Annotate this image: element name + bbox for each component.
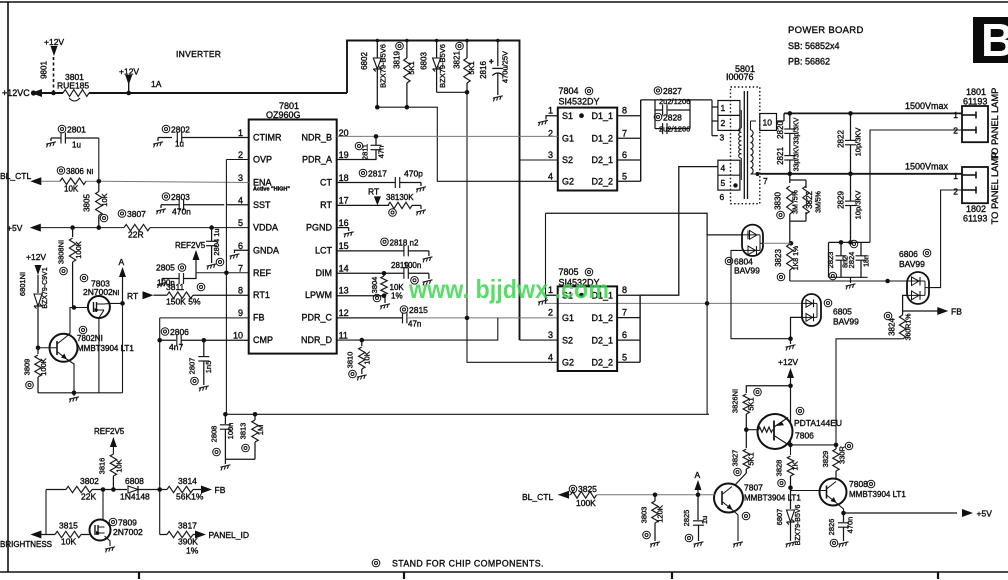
svg-text:1: 1	[238, 128, 243, 138]
svg-text:47n: 47n	[408, 320, 421, 329]
svg-text:CTIMR: CTIMR	[253, 133, 282, 143]
svg-text:5: 5	[238, 218, 243, 228]
svg-text:+12V: +12V	[44, 37, 64, 47]
svg-text:1u: 1u	[72, 141, 81, 150]
svg-text:10p/3KV: 10p/3KV	[854, 128, 863, 157]
svg-text:2817: 2817	[368, 169, 387, 179]
svg-text:SI4532DY: SI4532DY	[559, 97, 600, 107]
svg-text:2803: 2803	[171, 192, 190, 202]
resistor R3828 1K	[787, 456, 793, 476]
svg-text:2805: 2805	[156, 263, 175, 273]
svg-text:3828: 3828	[775, 460, 784, 477]
transistor Q7803 2N7002 MOSFET	[88, 296, 110, 318]
diode D6808 1N4148	[113, 489, 127, 491]
border frame bottom line with ticks	[0, 571, 1008, 573]
node A arrow (7803)	[122, 276, 124, 303]
resistor R3806 10K	[41, 180, 60, 182]
svg-text:2828: 2828	[663, 113, 682, 123]
svg-text:BL_CTL: BL_CTL	[0, 171, 31, 181]
svg-text:100K: 100K	[39, 358, 48, 376]
svg-text:18: 18	[339, 173, 349, 183]
svg-text:1u: 1u	[700, 516, 709, 524]
node RT arrow at pin 17	[337, 204, 389, 206]
wire 7809 drain up to divider node	[102, 490, 104, 520]
diode D6804 BAV99	[742, 225, 763, 256]
svg-text:5K1: 5K1	[747, 452, 756, 465]
svg-text:B: B	[981, 14, 1008, 66]
svg-text:VDDA: VDDA	[253, 223, 278, 233]
svg-text:INVERTER: INVERTER	[176, 49, 221, 59]
svg-text:PANEL_ID: PANEL_ID	[209, 530, 249, 540]
svg-text:REF: REF	[253, 268, 272, 278]
svg-text:1K: 1K	[791, 461, 800, 470]
svg-text:2808: 2808	[210, 426, 219, 443]
svg-text:3819: 3819	[393, 51, 402, 69]
svg-text:MMBT3904 LT1: MMBT3904 LT1	[744, 494, 801, 503]
svg-text:47n: 47n	[377, 146, 386, 159]
svg-text:2801: 2801	[67, 125, 86, 135]
transistor Q7808 MMBT3904 LT1	[820, 479, 847, 506]
wire FB vertical to bottom divider	[159, 318, 161, 535]
svg-text:2821: 2821	[776, 147, 785, 165]
resistor R3815 10K	[41, 534, 55, 536]
svg-text:1: 1	[953, 110, 958, 120]
svg-text:3810: 3810	[346, 352, 355, 369]
capacitor C2817 470p on CT	[337, 182, 396, 184]
svg-text:100n: 100n	[404, 261, 422, 270]
svg-text:BL_CTL: BL_CTL	[522, 492, 553, 502]
wire NDR_D loop to G1 line	[337, 318, 498, 341]
svg-text:2822: 2822	[837, 130, 846, 148]
svg-text:G1: G1	[562, 313, 574, 323]
border frame left line	[7, 2, 9, 572]
transistor Q7802 MMBT3904 LT1	[50, 334, 78, 362]
svg-text:DIM: DIM	[316, 268, 333, 278]
wire OVP vertical to feedback filter	[225, 160, 227, 415]
svg-text:6802: 6802	[360, 52, 369, 70]
capacitor C2826 470n	[843, 513, 845, 522]
svg-text:470p: 470p	[404, 169, 423, 179]
svg-text:3803: 3803	[640, 507, 649, 524]
wire 6804 upper pin loop	[546, 213, 743, 235]
resistor R3808 100K	[70, 225, 75, 230]
capacitor C2818 8n2 on LCT	[337, 250, 404, 252]
svg-text:6: 6	[238, 241, 243, 251]
svg-text:2: 2	[548, 308, 553, 318]
capacitor C2824 18n	[860, 242, 862, 255]
capacitor C2801 1u	[51, 137, 61, 139]
transistor Q7809 2N7002 MOSFET	[90, 520, 111, 541]
capacitor C2819 100n on DIM	[337, 272, 404, 274]
svg-text:+12V: +12V	[26, 252, 46, 262]
connector J1802 61193 TO PANEL LAMP	[962, 167, 988, 203]
wire BRIGHTNESS to 3802	[45, 490, 47, 535]
svg-text:STAND FOR CHIP COMPONENTS.: STAND FOR CHIP COMPONENTS.	[392, 559, 544, 569]
svg-text:3817: 3817	[178, 521, 197, 531]
svg-text:7: 7	[763, 176, 768, 186]
svg-text:2827: 2827	[663, 86, 682, 96]
svg-text:12: 12	[339, 308, 349, 318]
svg-text:G2: G2	[562, 177, 574, 187]
svg-text:16: 16	[339, 218, 349, 228]
svg-text:3816: 3816	[98, 458, 107, 475]
resistor R3803 120K	[653, 493, 658, 498]
svg-text:1n5: 1n5	[204, 361, 213, 374]
ground at PGND pin16	[337, 227, 349, 229]
svg-text:2811: 2811	[361, 144, 370, 160]
svg-text:D1_2: D1_2	[591, 313, 613, 323]
svg-text:10K: 10K	[64, 185, 79, 194]
svg-text:11: 11	[339, 331, 348, 341]
svg-text:2820: 2820	[776, 121, 785, 139]
svg-text:REF2V5: REF2V5	[94, 427, 125, 436]
svg-text:1%: 1%	[391, 292, 403, 301]
svg-text:FB: FB	[215, 485, 226, 495]
wire zener bank A to 7804 G2	[377, 107, 558, 181]
capacitor C2821 33p/3KV	[784, 155, 795, 157]
svg-text:10: 10	[763, 118, 773, 128]
capacitor C2820 33p/3KV	[789, 113, 791, 129]
wire LPWM	[337, 295, 385, 297]
capacitor C2815 47n on PDR_C	[337, 317, 403, 319]
svg-text:1M: 1M	[256, 425, 265, 435]
svg-text:3821: 3821	[453, 51, 462, 69]
svg-text:5: 5	[622, 171, 627, 181]
ground at 6805 return	[790, 339, 792, 344]
svg-text:D2_1: D2_1	[591, 155, 613, 165]
svg-text:4: 4	[238, 196, 243, 206]
capacitor C2806 4n7 on CMP	[160, 339, 176, 341]
wire 7808 emitter to +5V	[836, 503, 844, 514]
capacitor C2827 2u2/1206	[654, 100, 656, 129]
svg-text:120K: 120K	[656, 505, 665, 523]
svg-text:OZ960G: OZ960G	[266, 110, 301, 120]
svg-text:1N4148: 1N4148	[120, 492, 150, 502]
capacitor C2807 1n5	[203, 340, 205, 356]
wire NDR_B to 7804 G1 (gray)	[337, 135, 558, 137]
svg-text:D1_2: D1_2	[591, 134, 613, 144]
svg-text:8: 8	[622, 285, 627, 295]
wire feedback filter line	[225, 413, 709, 415]
svg-text:Active "HIGH": Active "HIGH"	[253, 187, 290, 193]
svg-text:3802: 3802	[80, 476, 99, 486]
transistor U7804 SI4532DY dual MOSFET	[558, 108, 617, 191]
svg-text:3808NI: 3808NI	[57, 240, 66, 264]
wire 7802 emitter	[67, 359, 75, 393]
svg-text:OVP: OVP	[253, 155, 272, 165]
resistor R3822 3M/5%	[803, 186, 809, 214]
svg-text:POWER BOARD: POWER BOARD	[788, 25, 864, 36]
svg-text:5K1: 5K1	[747, 397, 756, 410]
svg-text:56K1%: 56K1%	[176, 492, 204, 502]
svg-text:10K: 10K	[363, 351, 372, 364]
svg-text:BZX79-B5V6: BZX79-B5V6	[795, 504, 802, 545]
wire +12V rail to top bus	[347, 41, 520, 341]
svg-text:3806: 3806	[66, 167, 84, 176]
svg-text:MMBT3904 LT1: MMBT3904 LT1	[849, 490, 906, 499]
svg-text:TO PANEL LAMP: TO PANEL LAMP	[990, 152, 1000, 225]
svg-text:2826: 2826	[827, 519, 836, 536]
wire current sense to 6806	[790, 280, 907, 282]
capacitor C2811 47n coupling	[337, 150, 376, 160]
svg-text:14: 14	[339, 263, 349, 273]
svg-text:G1: G1	[562, 134, 574, 144]
svg-text:7809: 7809	[118, 518, 137, 528]
wire 7802 collector to 7803 gate	[67, 308, 88, 337]
svg-text:NI: NI	[87, 169, 94, 176]
svg-text:9801: 9801	[40, 61, 49, 79]
svg-text:+5V: +5V	[977, 509, 993, 519]
svg-text:4: 4	[548, 171, 553, 181]
resistor R3802 22K	[46, 489, 66, 491]
svg-text:PGND: PGND	[306, 223, 333, 233]
wire 3828 to 7808 base	[791, 490, 820, 492]
wire PDR_C coupling to 7805 G1 (gray)	[407, 317, 558, 319]
capacitor C2825 1u	[697, 495, 699, 520]
capacitor C2805 100n	[184, 273, 197, 279]
svg-text:+12V: +12V	[778, 357, 798, 367]
wire 1500Vmax top rail to connector 1801	[777, 120, 785, 122]
svg-text:3824: 3824	[888, 318, 897, 336]
svg-text:2823: 2823	[826, 252, 835, 269]
wire 7804 drain bus pins 5-8	[617, 115, 641, 117]
svg-text:3M /5%: 3M /5%	[793, 190, 800, 214]
svg-text:1500Vmax: 1500Vmax	[905, 162, 949, 172]
wire 6804 lower pin to 6805 return	[731, 250, 791, 338]
wire caps to transformer primary pins	[711, 100, 713, 136]
svg-text:3: 3	[548, 330, 553, 340]
transformer primary winding	[739, 128, 742, 132]
svg-text:NDR_D: NDR_D	[301, 335, 333, 345]
svg-text:18n: 18n	[864, 255, 871, 267]
svg-text:3814: 3814	[178, 476, 197, 486]
svg-text:3815: 3815	[59, 521, 78, 531]
svg-text:19: 19	[339, 150, 349, 160]
resistor R3826 5K1	[746, 386, 790, 393]
svg-text:9: 9	[238, 308, 243, 318]
svg-text:1%: 1%	[186, 546, 199, 556]
svg-text:3829: 3829	[821, 451, 830, 468]
svg-text:150K 5%: 150K 5%	[166, 297, 201, 307]
svg-text:1500Vmax: 1500Vmax	[905, 101, 949, 111]
capacitor C2822 10p/3KV	[850, 113, 852, 140]
ground below 2816	[493, 96, 503, 102]
svg-text:61193: 61193	[963, 214, 987, 224]
svg-text:REF2V5: REF2V5	[175, 241, 206, 250]
svg-text:D2_2: D2_2	[591, 358, 613, 368]
svg-text:10: 10	[233, 331, 243, 341]
ground GNDA pin6	[235, 250, 249, 253]
svg-text:5K1: 5K1	[467, 61, 476, 74]
svg-text:BZX79-C9V1: BZX79-C9V1	[42, 267, 49, 308]
svg-text:7804: 7804	[559, 86, 579, 96]
capacitor C2804 1u	[209, 225, 214, 230]
svg-text:NDR_B: NDR_B	[301, 133, 332, 143]
svg-text:3826NI: 3826NI	[731, 389, 740, 413]
svg-text:10K: 10K	[115, 459, 124, 472]
svg-text:LPWM: LPWM	[305, 290, 332, 300]
svg-text:3811: 3811	[166, 282, 185, 292]
transistor Q7807 MMBT3904 LT1	[714, 484, 743, 513]
svg-text:2804 1u: 2804 1u	[212, 228, 221, 255]
svg-text:330R: 330R	[838, 445, 847, 464]
svg-text:PB: 56862: PB: 56862	[788, 57, 830, 67]
capacitor C2829 10p/3KV	[850, 174, 852, 201]
wire zener bank B to 7805 G2	[437, 92, 558, 362]
svg-text:1: 1	[721, 103, 726, 113]
svg-text:3: 3	[720, 133, 725, 143]
capacitor C2802 1u	[158, 137, 172, 139]
op-amp U7801 OZ960G inverter controller IC	[249, 120, 337, 354]
wire 6805 lower pin to ground node	[791, 317, 803, 338]
svg-text:6: 6	[622, 150, 627, 160]
transistor Q7806 PDTA144EU digital PNP	[758, 414, 793, 449]
resistor R3830 3M/5%	[789, 174, 791, 183]
svg-text:I00076: I00076	[726, 72, 754, 82]
svg-text:5: 5	[721, 178, 726, 188]
wire bottom rail of 7802 cluster	[38, 392, 123, 394]
svg-text:PDTA144EU: PDTA144EU	[794, 418, 842, 428]
svg-text:RT: RT	[320, 200, 332, 210]
svg-text:3: 3	[548, 150, 553, 160]
svg-text:2802: 2802	[171, 125, 190, 135]
capacitor C2816 470u/25V electrolytic	[497, 41, 499, 67]
svg-text:2: 2	[953, 126, 958, 136]
svg-text:2829: 2829	[837, 191, 846, 209]
border frame top line	[0, 1, 1008, 3]
svg-text:3: 3	[238, 173, 243, 183]
svg-text:TO PANEL LAMP: TO PANEL LAMP	[990, 88, 1000, 161]
wire OVP to 2803/SST	[226, 159, 248, 161]
node A arrow (bottom)	[696, 493, 701, 498]
svg-text:1A: 1A	[151, 79, 162, 89]
wire 7805 drains to transformer pin 4	[640, 167, 718, 296]
transformer pin 10 box	[760, 114, 777, 131]
resistor R3807 22R	[124, 224, 150, 230]
svg-text:2: 2	[721, 118, 726, 128]
resistor R3825 100K	[571, 491, 597, 498]
svg-text:2: 2	[238, 150, 243, 160]
svg-text:3813: 3813	[239, 423, 248, 440]
resistor R3819 5K1	[406, 41, 408, 59]
svg-text:1: 1	[953, 171, 958, 181]
wire +5V VDDA line	[41, 227, 125, 229]
svg-text:2818: 2818	[390, 238, 408, 247]
wire 6804 right pin to 3823 (gray)	[763, 242, 791, 244]
wire +12V to 7806 emitter	[790, 386, 792, 424]
node FB output arrow	[903, 310, 942, 312]
wire 6806 bottom to FB node	[903, 295, 907, 311]
svg-text:3809: 3809	[23, 359, 32, 376]
svg-text:PDR_A: PDR_A	[302, 155, 332, 165]
svg-text:BAV99: BAV99	[833, 317, 859, 327]
svg-text:470n: 470n	[172, 207, 191, 217]
svg-text:6803: 6803	[420, 52, 429, 70]
svg-text:470u/25V: 470u/25V	[501, 51, 510, 83]
resistor R3805 10K	[96, 192, 102, 216]
zener D6801 BZX79-C9V1	[37, 275, 39, 293]
svg-text:7: 7	[238, 263, 243, 273]
svg-text:CT: CT	[320, 178, 332, 188]
logo B (black square, top right)	[973, 17, 1008, 63]
svg-text:7: 7	[622, 128, 627, 138]
svg-text:BAV99: BAV99	[734, 266, 760, 276]
svg-text:MMBT3904 LT1: MMBT3904 LT1	[77, 344, 134, 353]
svg-text:4: 4	[721, 163, 726, 173]
svg-text:+5V: +5V	[7, 223, 23, 233]
wire 7809 source to ground	[105, 536, 111, 546]
svg-text:10K: 10K	[100, 193, 109, 206]
svg-text:S2: S2	[562, 335, 573, 345]
wire sense line (gray) to 6805	[546, 302, 803, 304]
resistor R3814 56K 1% to FB	[160, 489, 167, 491]
resistor R3829 330R	[833, 449, 839, 471]
svg-text:6: 6	[622, 330, 627, 340]
svg-text:RT: RT	[127, 291, 138, 301]
wire 3824 to collector node of 7806	[836, 339, 903, 445]
svg-text:RT1: RT1	[253, 290, 270, 300]
wire 6806 right to connector 1802 pin2	[929, 190, 962, 288]
zener D6807 BZX79-B5V6	[790, 491, 792, 510]
svg-text:BRIGHTNESS: BRIGHTNESS	[0, 540, 52, 549]
svg-text:2815: 2815	[409, 305, 428, 315]
svg-text:8: 8	[238, 286, 243, 296]
svg-text:S1: S1	[562, 111, 573, 121]
svg-text:7807: 7807	[744, 483, 763, 493]
svg-text:2806: 2806	[170, 327, 189, 337]
svg-text:2u2/1206: 2u2/1206	[659, 97, 690, 106]
svg-text:33p/3KV: 33p/3KV	[794, 144, 801, 171]
resistor R3813 1M	[254, 414, 256, 420]
svg-text:A: A	[119, 257, 125, 267]
svg-text:6808: 6808	[125, 476, 144, 486]
svg-text:1: 1	[548, 106, 553, 116]
wire FB pin9	[160, 317, 249, 319]
wire 7804 S2 to +12V rail	[520, 159, 558, 161]
svg-text:470n: 470n	[846, 517, 855, 534]
svg-text:6801NI: 6801NI	[18, 272, 27, 296]
svg-text:6805: 6805	[833, 307, 852, 317]
svg-text:3805: 3805	[83, 194, 92, 212]
resistor R3812 130K	[388, 202, 412, 208]
svg-text:3827: 3827	[731, 450, 740, 467]
resistor R3827 5K1	[745, 430, 747, 448]
resistor R3804 10K 1%	[381, 276, 387, 295]
jumper 9801 (dashed)	[53, 57, 55, 93]
svg-text:3823: 3823	[774, 249, 783, 267]
svg-text:A: A	[695, 470, 701, 480]
svg-text:7808: 7808	[849, 479, 868, 489]
wire +12V main rail	[36, 92, 63, 94]
wire 7807 emitter to ground	[732, 510, 738, 542]
svg-text:3830: 3830	[774, 192, 783, 210]
svg-text:13: 13	[339, 286, 349, 296]
svg-text:3822: 3822	[805, 191, 814, 209]
svg-text:www. bjjdwx .com: www. bjjdwx .com	[408, 274, 609, 304]
svg-text:1K8 1%: 1K8 1%	[793, 246, 800, 271]
diode D6805 BAV99	[802, 294, 821, 326]
zener D6802 BZX79-B5V6	[376, 41, 378, 59]
svg-text:CMP: CMP	[253, 335, 273, 345]
svg-text:1802: 1802	[966, 204, 986, 214]
wire 1500Vmax bottom rail to connector 1802	[760, 173, 962, 175]
capacitor C2823 8n2	[829, 241, 871, 243]
svg-text:7: 7	[622, 308, 627, 318]
svg-text:6806: 6806	[899, 249, 918, 259]
svg-text:7806: 7806	[795, 431, 814, 441]
svg-text:10K: 10K	[61, 537, 76, 547]
svg-text:2N7002: 2N7002	[83, 287, 113, 297]
